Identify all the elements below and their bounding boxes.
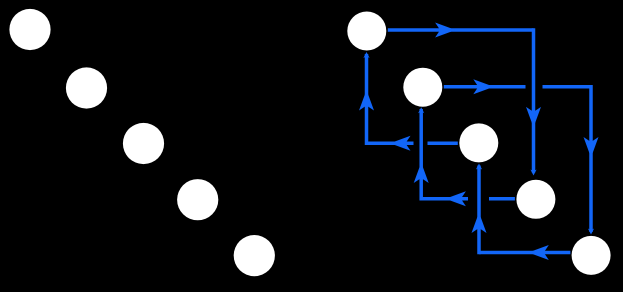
arrowhead edge A horizontal mid (pointing right) [435, 23, 456, 38]
wire edge C horizontal right piece (R3 to crossing gap) [428, 141, 458, 145]
arrowhead edge D terminal nub at R2 [418, 107, 424, 113]
wire edge A horizontal (R1 to corner) [388, 28, 534, 32]
node R2 [403, 68, 442, 107]
arrowhead edge C horizontal mid (pointing left) [390, 136, 411, 151]
arrowhead edge B horizontal mid (pointing right) [473, 79, 494, 94]
arrowhead edge D vertical mid (pointing up) [414, 163, 429, 184]
arrowhead edge A vertical mid (pointing down) [526, 107, 541, 128]
node L3 [123, 123, 164, 164]
arrowhead edge E vertical mid (pointing up) [472, 213, 487, 234]
wire edge B horizontal left piece (R2 to crossing gap) [444, 85, 526, 89]
node R3 [459, 123, 498, 162]
wire edge D horizontal right piece (R4 to crossing gap) [489, 197, 515, 201]
node L5 [234, 235, 275, 276]
wire edge A vertical (corner down to R4) [532, 28, 536, 172]
node R1 [347, 12, 386, 51]
arrowhead edge B vertical mid (pointing down) [584, 137, 599, 158]
node R4 [516, 180, 555, 219]
arrowhead edge A terminal nub at R4 [530, 170, 536, 176]
arrowhead edge E horizontal mid (pointing left) [528, 245, 549, 260]
arrowhead edge C vertical mid (pointing up) [359, 90, 374, 111]
arrowhead edge D horizontal mid (pointing left) [445, 191, 466, 206]
wire edge D vertical (corner up to R2) [419, 109, 423, 201]
arrowhead edge E terminal nub at R3 [476, 164, 482, 170]
wire edge B horizontal right piece (gap to corner) [543, 85, 592, 89]
node L4 [177, 179, 218, 220]
wire edge B vertical (corner down to R5) [589, 85, 593, 232]
node R5 [572, 236, 611, 275]
arrowhead edge B terminal nub at R5 [588, 229, 594, 235]
wire edge C horizontal left piece (gap to corner) [367, 141, 414, 145]
wire edge C vertical (corner up to R1) [365, 54, 369, 145]
wire edge D horizontal left piece (gap to corner) [421, 197, 468, 201]
node L1 [9, 9, 50, 50]
node L2 [66, 67, 107, 108]
wire edge E horizontal (R5 to corner) [479, 251, 570, 255]
wire edge E vertical (corner up to R3) [477, 166, 481, 255]
arrowhead edge C terminal nub at R1 [363, 52, 369, 58]
